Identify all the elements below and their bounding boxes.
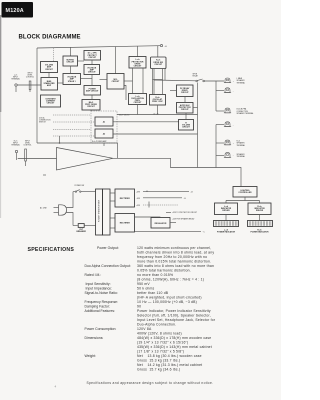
svg-text:Signal-to-Noise Ratio:: Signal-to-Noise Ratio:	[85, 291, 118, 295]
wire rail to R drive	[157, 46, 159, 57]
power transformer	[96, 189, 103, 235]
svg-text:Specifications and appearance: Specifications and appearance design sub…	[87, 381, 214, 385]
svg-text:AMP CIRCUIT: AMP CIRCUIT	[86, 89, 99, 92]
spec rows	[85, 246, 216, 372]
svg-text:CIRCUIT: CIRCUIT	[87, 106, 96, 108]
svg-text:Power Indicator, Power Indicat: Power Indicator, Power Indicator Sensiti…	[137, 309, 211, 313]
svg-text:frequency from 20Hz to 20,000H: frequency from 20Hz to 20,000Hz with no	[137, 255, 207, 259]
svg-text:CIRCUIT: CIRCUIT	[66, 62, 75, 64]
box L-ch protector drive	[129, 57, 146, 69]
svg-text:more than 0.015% total harmoni: more than 0.015% total harmonic distorti…	[137, 260, 211, 264]
output wire to meter section	[113, 158, 241, 186]
model label M120A	[2, 2, 34, 18]
wire mcl bottom bend	[124, 86, 126, 101]
svg-text:REGULATOR: REGULATOR	[155, 222, 167, 225]
svg-text:RELAY: RELAY	[193, 75, 199, 78]
wire self short rail	[117, 114, 198, 116]
wires transformer to rectifiers	[110, 192, 115, 194]
svg-text:(19 1/4" x 13 7/32" x 6 15/16": (19 1/4" x 13 7/32" x 6 15/16")	[137, 341, 188, 345]
svg-text:CONTROLLER: CONTROLLER	[238, 192, 252, 194]
terminal 2 main -	[224, 88, 231, 93]
svg-text:CIRCUIT: CIRCUIT	[47, 103, 56, 105]
svg-text:CIRCUIT: CIRCUIT	[45, 69, 54, 71]
box muting circuit	[63, 56, 78, 66]
svg-text:−: −	[233, 156, 234, 158]
svg-text:Gross 15.7 kg (34.6 lbs.): Gross 15.7 kg (34.6 lbs.)	[137, 368, 180, 372]
bottom rail	[135, 230, 202, 232]
svg-text:−: −	[233, 91, 234, 93]
svg-text:Input Impedance:: Input Impedance:	[86, 287, 113, 291]
svg-text:POWER INDICATOR: POWER INDICATOR	[251, 231, 270, 234]
dashed interconnect wires	[53, 114, 91, 116]
box R-ch oscillation	[150, 95, 166, 106]
svg-text:BREAKER: BREAKER	[77, 230, 87, 233]
svg-text:PREV. CIRC: PREV. CIRC	[152, 101, 163, 103]
svg-text:SWITCH: SWITCH	[39, 122, 46, 124]
svg-text:CONTROL: CONTROL	[23, 144, 31, 146]
duo connection switch dashed box	[91, 111, 117, 143]
svg-text:CIRCUIT: CIRCUIT	[182, 127, 191, 129]
svg-text:POWER INDICATOR: POWER INDICATOR	[217, 231, 236, 234]
svg-text:Selector (full, off, 1/100), S: Selector (full, off, 1/100), Speaker Sel…	[137, 314, 211, 318]
svg-text:AC LINE: AC LINE	[40, 207, 47, 210]
box regulator	[151, 218, 170, 229]
box voltage amp stage1	[63, 74, 81, 85]
svg-text:CIRCUIT: CIRCUIT	[88, 57, 97, 59]
svg-text:CIRCUIT: CIRCUIT	[112, 81, 121, 83]
box beta2	[95, 129, 113, 138]
terminal 6 -	[224, 153, 231, 158]
node +B	[160, 45, 162, 47]
svg-text:400W (120V, 8 ohms load): 400W (120V, 8 ohms load)	[137, 332, 182, 336]
circuit breaker	[78, 224, 84, 228]
speaker terminal bus upper	[215, 81, 217, 111]
svg-text:10 Hz — 100,000Hz (+0 dB, −3 d: 10 Hz — 100,000Hz (+0 dB, −3 dB)	[137, 300, 197, 304]
rails from rectifier 2 / regulator	[135, 216, 161, 219]
svg-text:TERMINAL: TERMINAL	[237, 144, 246, 147]
svg-text:(D - A): (D - A)	[154, 113, 159, 116]
wire input to triangle	[18, 158, 57, 160]
box volume amp circuit	[41, 62, 58, 73]
svg-text:Frequency Response:: Frequency Response:	[85, 300, 119, 304]
speaker terminal bus lower	[215, 125, 217, 168]
svg-text:STAGE 1: STAGE 1	[68, 80, 76, 83]
box relay drive	[177, 85, 194, 97]
svg-text:SPECIFICATIONS: SPECIFICATIONS	[28, 247, 75, 253]
svg-text:RECTIFIER: RECTIFIER	[120, 198, 131, 200]
wires between drive and oscillation boxes	[132, 68, 134, 94]
amplifier triangle R-ch power amp	[57, 148, 114, 171]
svg-text:POWER SW: POWER SW	[75, 185, 85, 187]
svg-text:(17 1/8" x 13 7/32" x 5 5/8"): (17 1/8" x 13 7/32" x 5 5/8")	[137, 350, 184, 354]
box R-ch drive	[151, 57, 167, 69]
box protector drive	[82, 100, 100, 111]
terminal 4 -	[224, 122, 231, 127]
wire rail to muting	[70, 47, 72, 56]
box constant current circuit	[41, 95, 61, 107]
svg-text:POWER TRANSFORMER: POWER TRANSFORMER	[97, 199, 100, 222]
svg-text:RECTIFIER: RECTIFIER	[120, 223, 131, 225]
svg-text:BLOCK DIAGRAMME: BLOCK DIAGRAMME	[19, 35, 81, 41]
svg-text:Net 14.2 kg (31.3 lbs.) met: Net 14.2 kg (31.3 lbs.) metal cabinet	[137, 363, 202, 367]
svg-text:CONTROL: CONTROL	[26, 76, 34, 78]
wire +B top rail	[37, 46, 160, 48]
box bias stabilizer amp	[41, 78, 58, 91]
svg-text:Net 13.8 kg (30.4 lbs.) woo: Net 13.8 kg (30.4 lbs.) wooden case	[137, 354, 202, 358]
svg-text:no more than 0.015%: no more than 0.015%	[137, 273, 173, 277]
box L-ch oscillation	[129, 94, 147, 105]
wires protector stack	[184, 97, 186, 103]
svg-text:Dimensions:: Dimensions:	[85, 336, 104, 340]
indicator bar L	[214, 221, 239, 227]
svg-text:360 watts into 8 ohms load wit: 360 watts into 8 ohms load with no more …	[137, 264, 214, 268]
wire rail to L drive	[137, 46, 139, 56]
svg-text:Rated I.M.:: Rated I.M.:	[85, 273, 102, 277]
wire protector drive to duo box	[90, 110, 92, 111]
svg-text:Gross 15.3 kg (33.7 lbs.): Gross 15.3 kg (33.7 lbs.)	[137, 359, 180, 363]
wires plug to transformer	[67, 192, 74, 208]
svg-text:TERMINAL: TERMINAL	[237, 81, 246, 84]
svg-text:DRIVER: DRIVER	[256, 210, 264, 212]
svg-text:better than 110 dB: better than 110 dB	[137, 291, 169, 295]
svg-text:120V 8A: 120V 8A	[137, 327, 152, 331]
svg-text:TERMINAL: TERMINAL	[11, 77, 20, 80]
svg-text:CIRCUIT: CIRCUIT	[134, 66, 143, 68]
wire stage to mcl	[100, 79, 108, 81]
terminal 1 main +	[224, 78, 231, 83]
wire rail to mcl	[115, 47, 117, 74]
svg-text:435(W) x 336(D) x 143(H) mm me: 435(W) x 336(D) x 143(H) mm metal cabine…	[137, 345, 212, 349]
box voltage amp circuit	[84, 65, 100, 75]
wire input to bias amp	[17, 84, 41, 86]
wire left vertical bus	[36, 48, 38, 143]
svg-text:CIRCUIT: CIRCUIT	[134, 102, 143, 104]
svg-text:CIRCUIT: CIRCUIT	[181, 92, 190, 94]
svg-text:−: −	[233, 125, 234, 127]
svg-text:Power Output:: Power Output:	[97, 246, 119, 250]
svg-text:484(W) x 336(D) x 178(H) mm wo: 484(W) x 336(D) x 178(H) mm wooden case	[137, 336, 211, 340]
box R meter drive	[248, 203, 271, 215]
svg-text:R-ch POWER AMP: R-ch POWER AMP	[92, 140, 107, 143]
wires R drive down to relay rail	[153, 69, 155, 95]
wires lighting to meter drives	[244, 197, 246, 201]
svg-text:TERMINAL: TERMINAL	[11, 143, 20, 146]
svg-text:SPEAKER TERMINAL: SPEAKER TERMINAL	[237, 112, 254, 115]
svg-text:+35V TO PROTECTOR CIRCUIT: +35V TO PROTECTOR CIRCUIT	[172, 212, 197, 214]
wire rail to volume amp (dashed)	[53, 48, 55, 62]
terminal 3 duo alpha	[224, 108, 231, 113]
svg-text:120 watts minimum continuous p: 120 watts minimum continuous per channel…	[137, 246, 211, 250]
svg-text:0.05% total harmonic distortio: 0.05% total harmonic distortion.	[137, 269, 191, 273]
svg-text:Weight:: Weight:	[85, 354, 97, 358]
svg-text:CIRCUIT: CIRCUIT	[154, 64, 163, 66]
box power amp circuit	[84, 86, 101, 96]
svg-text:TERMINAL: TERMINAL	[237, 155, 246, 158]
box rectifier 1	[115, 189, 135, 207]
wire duo box down to lower rail	[103, 143, 105, 146]
box lighting controller	[233, 187, 257, 198]
svg-text:Power Consumption:: Power Consumption:	[85, 327, 117, 331]
svg-text:M120A: M120A	[6, 8, 24, 14]
wire mcl to bus	[124, 80, 133, 82]
svg-text:DRIVER: DRIVER	[222, 210, 230, 212]
box r volume circuit	[179, 120, 194, 131]
box beta1	[95, 117, 113, 126]
box dc spk protect	[84, 51, 101, 61]
svg-text:both channels driven into 8 oh: both channels driven into 8 ohms load, a…	[137, 251, 214, 255]
box rectifier 2	[115, 214, 135, 233]
terminal 5 R +	[224, 140, 231, 145]
svg-text:CIRCUIT: CIRCUIT	[181, 109, 190, 111]
svg-text:+: +	[233, 81, 234, 83]
svg-text:Additional Features:: Additional Features:	[85, 309, 116, 313]
svg-text:Input Level Set, Headphone Jac: Input Level Set, Headphone Jack, Selecto…	[137, 318, 216, 322]
indicator bar R	[248, 221, 273, 227]
svg-text:90: 90	[137, 305, 141, 309]
svg-text:Damping Factor:: Damping Factor:	[85, 305, 110, 309]
svg-text:950 mV: 950 mV	[137, 282, 150, 286]
lower rail above triangle	[37, 143, 118, 158]
left scan edge	[0, 15, 2, 112]
svg-text:+24V FOR SPEAKER RELAY: +24V FOR SPEAKER RELAY	[172, 218, 195, 221]
svg-text:AMP: AMP	[47, 84, 52, 87]
svg-text:Input Sensitivity:: Input Sensitivity:	[86, 282, 111, 286]
svg-text:CIRCUIT: CIRCUIT	[88, 72, 97, 74]
svg-text:Duo Alpha Connection Output:: Duo Alpha Connection Output:	[85, 264, 131, 268]
svg-text:+: +	[233, 143, 234, 145]
wire & switch	[73, 191, 75, 193]
svg-text:β1: β1	[102, 122, 105, 124]
svg-text:(IHF-A weighted, input short-c: (IHF-A weighted, input short-circuited)	[137, 296, 202, 300]
box mcl detect	[107, 74, 124, 90]
box protector circuit	[177, 103, 194, 114]
svg-text:(8 ohms, 120W(A), 60Hz : 7kHz: (8 ohms, 120W(A), 60Hz : 7kHz = 4 : 1)	[137, 278, 204, 282]
svg-text:50 k ohms: 50 k ohms	[137, 287, 155, 291]
minus tick below triangle	[43, 174, 46, 176]
wires from beta boxes right	[113, 121, 179, 123]
svg-text:Duo-Alpha Connection.: Duo-Alpha Connection.	[137, 323, 176, 327]
box L meter drive	[215, 203, 238, 215]
internal wires small left	[48, 73, 50, 78]
